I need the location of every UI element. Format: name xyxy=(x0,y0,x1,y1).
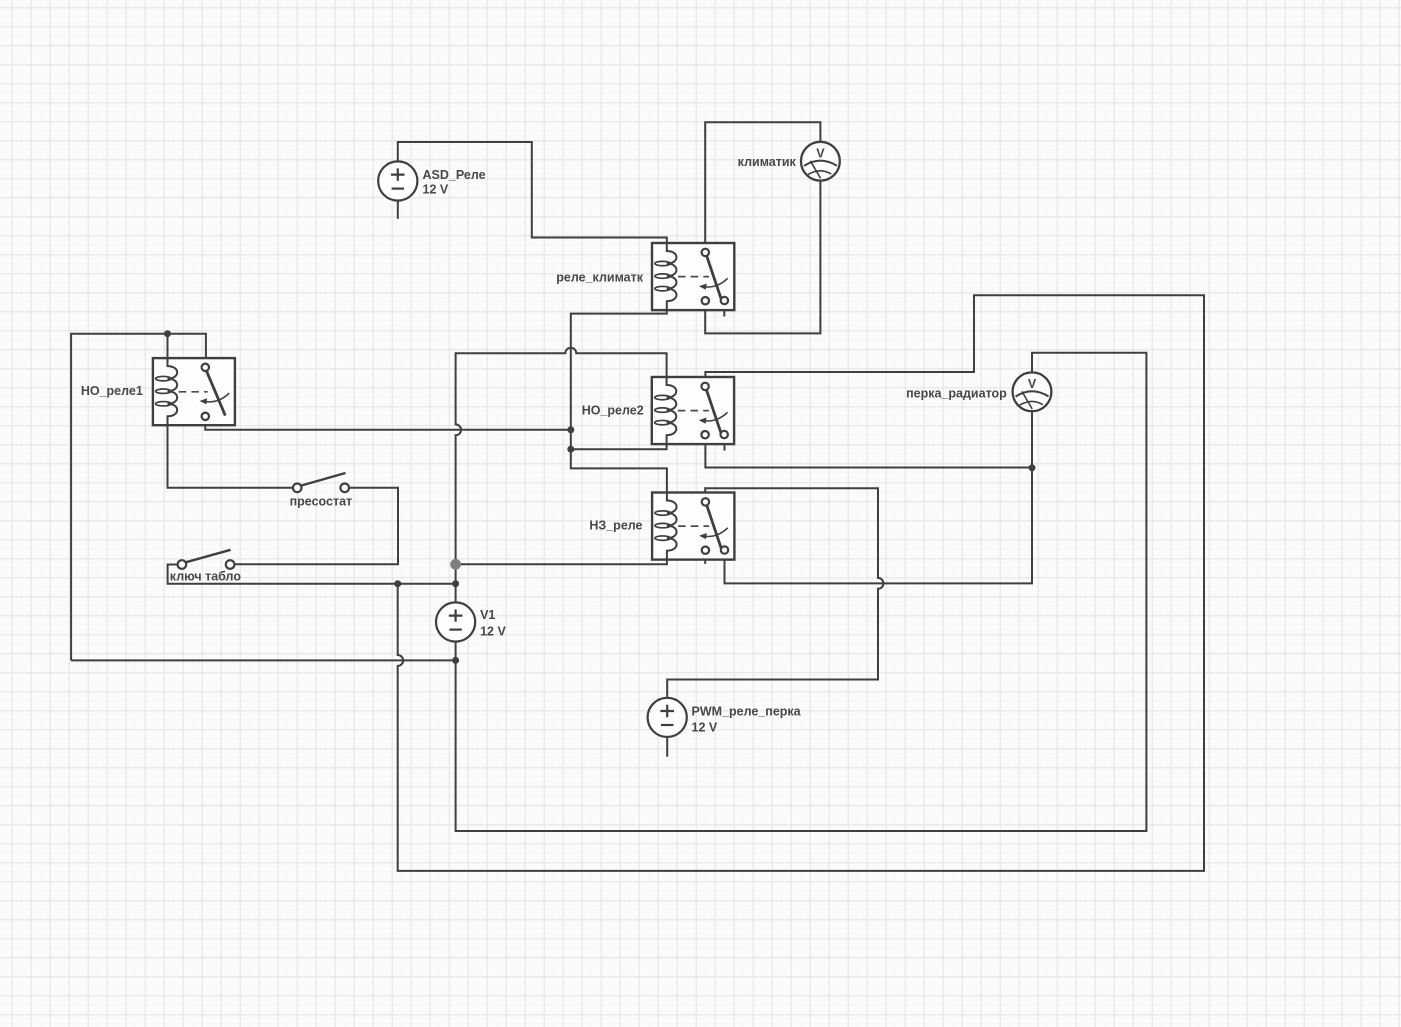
svg-text:V: V xyxy=(816,147,825,161)
relay НО_реле2 xyxy=(652,377,734,444)
node пресостат branch y=583.7 xyxy=(394,580,401,587)
wire НО_реле1 coil bottom to пресостат left xyxy=(168,421,293,488)
wire НЗ_реле common pin to PWM_реле_перка plus (hops over y=583.4) xyxy=(667,488,883,698)
svg-text:климатик: климатик xyxy=(738,155,797,169)
svg-text:НО_реле1: НО_реле1 xyxy=(81,384,143,398)
relay НО_реле1 xyxy=(153,358,235,425)
voltage source ASD_Реле xyxy=(378,161,417,200)
wire климатик bottom to реле_климатк NO pin xyxy=(705,181,820,333)
node НО_реле1 coil/top junction xyxy=(164,330,171,337)
svg-text:ASD_Реле: ASD_Реле xyxy=(423,168,486,182)
svg-text:12 V: 12 V xyxy=(423,183,449,197)
wire НО_реле1 top net from left rail xyxy=(71,334,206,661)
wire left rail bottom to V1 minus xyxy=(71,659,456,661)
voltage source V1 xyxy=(436,602,475,641)
wire V1 plus riser to НО_реле2 coil top (hops over x=570.8 and y=429.8) xyxy=(456,348,667,603)
svg-text:V: V xyxy=(1028,377,1037,391)
svg-text:ключ табло: ключ табло xyxy=(170,570,242,584)
svg-text:PWM_реле_перка: PWM_реле_перка xyxy=(692,705,802,719)
svg-text:12 V: 12 V xyxy=(480,624,506,638)
wire НО_реле1 bottom pin to node x=570.8 xyxy=(205,420,571,430)
wire НО_реле2 NO pin to перка_радиатор bottom node xyxy=(705,437,1032,467)
wire ASD_Реле plus to реле_климатк coil top xyxy=(398,142,667,247)
wire реле_климатк NC pin stub xyxy=(723,304,725,316)
relay НЗ_реле xyxy=(652,493,734,560)
svg-text:12 V: 12 V xyxy=(692,720,718,734)
wire ASD_Реле minus stub xyxy=(397,201,399,219)
svg-text:реле_климатк: реле_климатк xyxy=(556,271,643,285)
wire НЗ_реле coil bottom to gray node xyxy=(456,556,667,564)
wire НО_реле2 NC pin stub xyxy=(724,437,726,450)
wire НО_реле1 coil top stub xyxy=(167,334,169,362)
switch ключ табло xyxy=(178,550,235,569)
voltmeter климатик xyxy=(801,142,840,181)
switch пресостат xyxy=(293,473,349,492)
voltmeter перка_радиатор xyxy=(1013,372,1052,411)
wire реле_климатк common pin to климатик top xyxy=(705,122,820,248)
wire реле_климатк coil bottom to НЗ_реле coil top (vertical x=570.8) xyxy=(571,306,667,496)
voltage source PWM_реле_перка xyxy=(648,698,687,737)
node x=570.8 y=429.8 xyxy=(567,426,574,433)
svg-text:НО_реле2: НО_реле2 xyxy=(582,403,644,417)
wire ключ_табло left to V1 plus node y=583.7 xyxy=(168,565,456,584)
node x=570.8 y=449.2 xyxy=(567,446,574,453)
wire V1 minus loop to перка_радиатор top xyxy=(456,353,1147,831)
wire PWM_реле_перка minus stub xyxy=(666,737,668,757)
svg-text:перка_радиатор: перка_радиатор xyxy=(906,387,1007,401)
svg-text:V1: V1 xyxy=(480,608,495,622)
node gray junction y=564.3 xyxy=(450,559,461,570)
relay реле_климатк xyxy=(652,243,734,310)
svg-text:НЗ_реле: НЗ_реле xyxy=(589,518,642,532)
node перка_радиатор bottom y=467.5 xyxy=(1029,464,1036,471)
wire НО_реле2 common pin big loop to node (397.7,583.7) (hops over y=660.4) xyxy=(398,295,1204,871)
node V1 minus y=660.4 xyxy=(452,657,459,664)
wire НЗ_реле NO pin stub xyxy=(704,555,706,564)
svg-text:пресостат: пресостат xyxy=(290,495,353,509)
node V1 plus y=583.7 xyxy=(452,580,459,587)
wire НО_реле2 coil bottom branch to node at x=570.8 xyxy=(571,440,667,449)
wire пресостат right to ключ_табло right xyxy=(234,488,398,564)
wire перка_радиатор bottom to НЗ_реле NC pin xyxy=(725,412,1033,583)
